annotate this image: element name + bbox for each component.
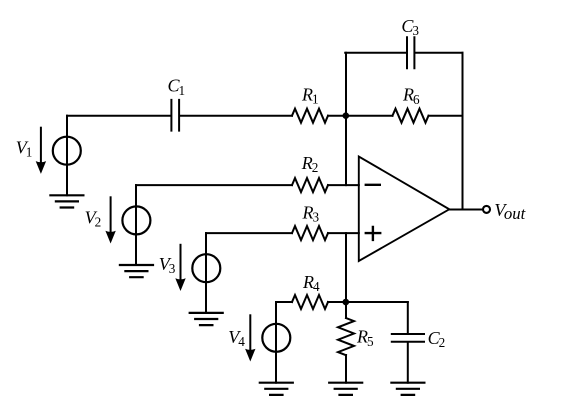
resistor R6 xyxy=(393,109,429,123)
capacitor C1 xyxy=(171,100,179,131)
wire feedback vertical left xyxy=(345,53,347,185)
wire top feedback right segment xyxy=(415,52,462,54)
arrow V4 xyxy=(245,315,255,361)
wire plus input down to node B xyxy=(345,233,347,302)
arrow V2 xyxy=(105,197,115,243)
source V4 xyxy=(260,302,293,395)
op-amp plus pin xyxy=(366,227,380,240)
wire R3 to op-amp xyxy=(328,232,359,234)
node A xyxy=(343,112,350,119)
source V1 xyxy=(50,116,83,208)
wire R1 to node A xyxy=(328,115,393,117)
wire C1 to R1 xyxy=(180,115,292,117)
wire V2 to R2 xyxy=(136,184,292,186)
wire C2 top xyxy=(407,302,409,333)
wire node B to R5 xyxy=(345,302,347,318)
svg-text:Vout: Vout xyxy=(494,200,525,223)
capacitor C2 xyxy=(392,334,424,342)
wire R4 to node B xyxy=(328,301,346,303)
resistor R3 xyxy=(292,226,328,240)
wire R5 to ground xyxy=(345,355,347,383)
node B xyxy=(343,299,350,306)
source V2 xyxy=(120,185,153,277)
wire R6 to feedback xyxy=(429,115,463,117)
op-amp U1 xyxy=(359,157,450,262)
ground R5 xyxy=(329,383,362,395)
source V3 xyxy=(190,233,223,325)
wire feedback vertical right xyxy=(462,53,464,210)
capacitor C3 xyxy=(407,37,414,68)
wire V3 to R3 xyxy=(206,232,292,234)
resistor R1 xyxy=(292,109,328,123)
ground C2 xyxy=(391,383,424,395)
resistor R4 xyxy=(292,295,328,309)
arrow V1 xyxy=(36,128,46,174)
wire top feedback left segment xyxy=(345,52,406,54)
resistor R5 xyxy=(338,318,354,355)
resistor R2 xyxy=(292,178,328,192)
op-amp minus pin xyxy=(366,184,380,186)
arrow V3 xyxy=(175,245,185,291)
wire V1 to C1 xyxy=(67,115,170,117)
wire R2 to op-amp xyxy=(328,184,359,186)
wire op-amp output xyxy=(449,209,483,211)
wire C2 bottom xyxy=(407,343,409,383)
wire V4 to R4 xyxy=(276,301,292,303)
terminal Vout xyxy=(483,206,490,213)
wire node B to C2 xyxy=(346,301,408,303)
